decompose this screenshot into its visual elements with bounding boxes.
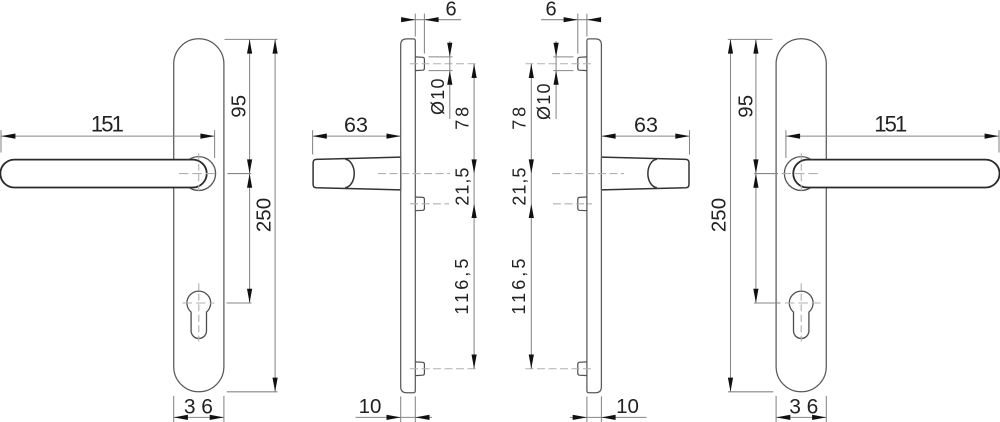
svg-text:151: 151 [91, 111, 124, 136]
svg-text:63: 63 [634, 113, 658, 137]
svg-text:21,5: 21,5 [509, 168, 529, 206]
svg-text:151: 151 [874, 111, 907, 136]
svg-text:Ø10: Ø10 [428, 78, 448, 115]
svg-text:116,5: 116,5 [509, 259, 529, 315]
svg-text:10: 10 [616, 395, 639, 418]
svg-text:250: 250 [707, 198, 730, 232]
svg-text:95: 95 [735, 95, 758, 118]
svg-text:10: 10 [359, 395, 382, 418]
svg-text:Ø10: Ø10 [534, 83, 554, 120]
svg-text:250: 250 [252, 198, 275, 232]
svg-text:6: 6 [545, 0, 556, 21]
svg-text:21,5: 21,5 [452, 168, 472, 206]
svg-text:95: 95 [227, 95, 250, 118]
svg-text:63: 63 [344, 113, 368, 137]
svg-text:116,5: 116,5 [452, 259, 472, 315]
svg-text:6: 6 [445, 0, 456, 21]
